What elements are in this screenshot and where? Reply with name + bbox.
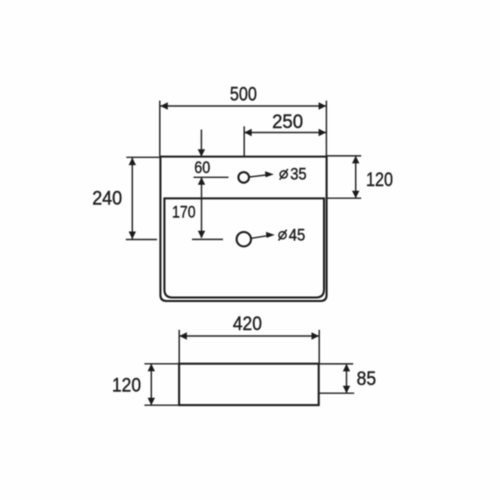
svg-text:85: 85 [357, 368, 377, 390]
svg-text:250: 250 [272, 111, 303, 133]
svg-text:120: 120 [112, 375, 141, 397]
svg-text:500: 500 [230, 83, 257, 105]
svg-text:60: 60 [194, 159, 210, 177]
svg-text:170: 170 [172, 204, 196, 222]
svg-text:45: 45 [289, 226, 306, 244]
svg-text:420: 420 [233, 313, 262, 335]
svg-text:35: 35 [290, 165, 307, 183]
svg-text:120: 120 [366, 169, 393, 191]
svg-text:240: 240 [92, 187, 122, 209]
